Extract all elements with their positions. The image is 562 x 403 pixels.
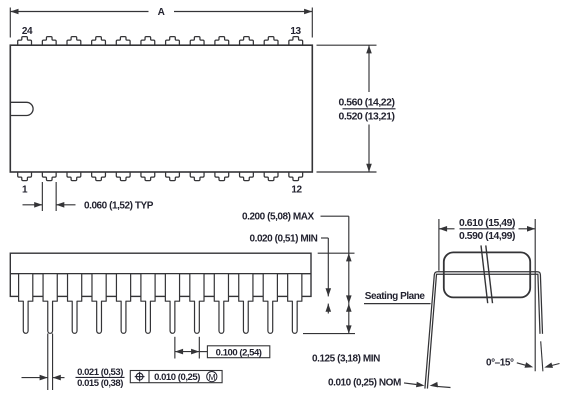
svg-text:0.060 (1,52) TYP: 0.060 (1,52) TYP [84, 201, 154, 212]
pin-1 index notch [10, 102, 33, 115]
dim 0.610 arrows [439, 226, 447, 232]
dim line 0.200 [348, 216, 350, 303]
svg-text:0.125 (3,18) MIN: 0.125 (3,18) MIN [312, 353, 380, 364]
lead horizontal bottom edge [427, 274, 540, 388]
side view mold line overlay [10, 273, 311, 275]
svg-text:0.010 (0,25): 0.010 (0,25) [154, 372, 200, 383]
side view mold line [10, 273, 311, 275]
ext line 0.610 right [534, 219, 536, 371]
side view pins (12 leads) [19, 274, 302, 334]
dim line 0.125 [348, 304, 350, 334]
position tolerance symbol [136, 373, 143, 380]
feature control frame box [130, 371, 222, 383]
svg-text:24: 24 [22, 26, 33, 37]
top view pins 1-12 (bottom row) [18, 172, 303, 181]
dim 0.560 arrows [366, 45, 372, 53]
dim 0.021 arrows [22, 377, 48, 379]
lead horizontal top edge [425, 272, 543, 389]
dim line 0.560 vertical [368, 45, 370, 92]
svg-text:0°–15°: 0°–15° [486, 357, 514, 368]
dim 0.125 arrows [346, 304, 352, 312]
dim 0.020 arrow upper [326, 288, 332, 296]
svg-text:0.015 (0,38): 0.015 (0,38) [77, 378, 123, 389]
svg-text:0.520 (13,21): 0.520 (13,21) [339, 112, 395, 123]
ext line pin tips [303, 333, 355, 335]
svg-text:12: 12 [291, 185, 302, 196]
end view body [444, 252, 530, 297]
boxed label 0.100 [207, 346, 269, 358]
ext line body bottom right [317, 171, 377, 173]
svg-text:0.560 (14,22): 0.560 (14,22) [339, 97, 395, 108]
break lines [481, 245, 488, 303]
M circle symbol (MMC) [207, 372, 217, 382]
svg-text:M: M [208, 372, 215, 382]
svg-text:0.200 (5,08) MAX: 0.200 (5,08) MAX [242, 212, 315, 223]
svg-text:1: 1 [22, 185, 28, 196]
dimension A extension line left [9, 8, 11, 38]
svg-text:Seating Plane: Seating Plane [365, 291, 426, 302]
top view package body [10, 45, 312, 172]
ext lines 0.100 [174, 337, 176, 359]
leader 0.020 [321, 237, 328, 239]
angle arrows [517, 363, 526, 365]
side view body [10, 253, 311, 296]
svg-text:A: A [158, 7, 165, 18]
ext line body top right [317, 44, 377, 46]
seating plane line [364, 303, 431, 305]
svg-text:0.590 (14,99): 0.590 (14,99) [459, 231, 515, 242]
svg-text:13: 13 [290, 26, 301, 37]
dim 0.200 arrows [346, 253, 352, 261]
svg-text:0.100 (2,54): 0.100 (2,54) [216, 348, 262, 359]
dim line 0.020 upper [327, 238, 329, 296]
dim line 0.610 [439, 228, 455, 230]
svg-text:0.610 (15,49): 0.610 (15,49) [459, 218, 515, 229]
dim 0.100 arrows [175, 349, 183, 355]
ext line body top (side view) [318, 252, 355, 254]
ext lines 0.060 [41, 182, 43, 211]
dimension A arrows [10, 9, 18, 15]
top view pins 24-13 (top row) [18, 37, 303, 46]
svg-text:0.010 (0,25) NOM: 0.010 (0,25) NOM [328, 377, 401, 388]
leader 0.200 [321, 215, 349, 217]
svg-text:0.020 (0,51) MIN: 0.020 (0,51) MIN [250, 233, 318, 244]
ext lines 0.021 [47, 334, 49, 391]
dimension A extension line right [311, 8, 313, 38]
angle reference line [541, 341, 543, 371]
dim 0.020 arrow lower [326, 304, 332, 312]
dim 0.060 arrows [23, 204, 43, 206]
dim 0.010 NOM arrows [404, 383, 416, 385]
svg-text:0.021 (0,53): 0.021 (0,53) [77, 367, 123, 378]
ext line 0.610 left [438, 219, 440, 271]
dimension A line [10, 11, 148, 13]
